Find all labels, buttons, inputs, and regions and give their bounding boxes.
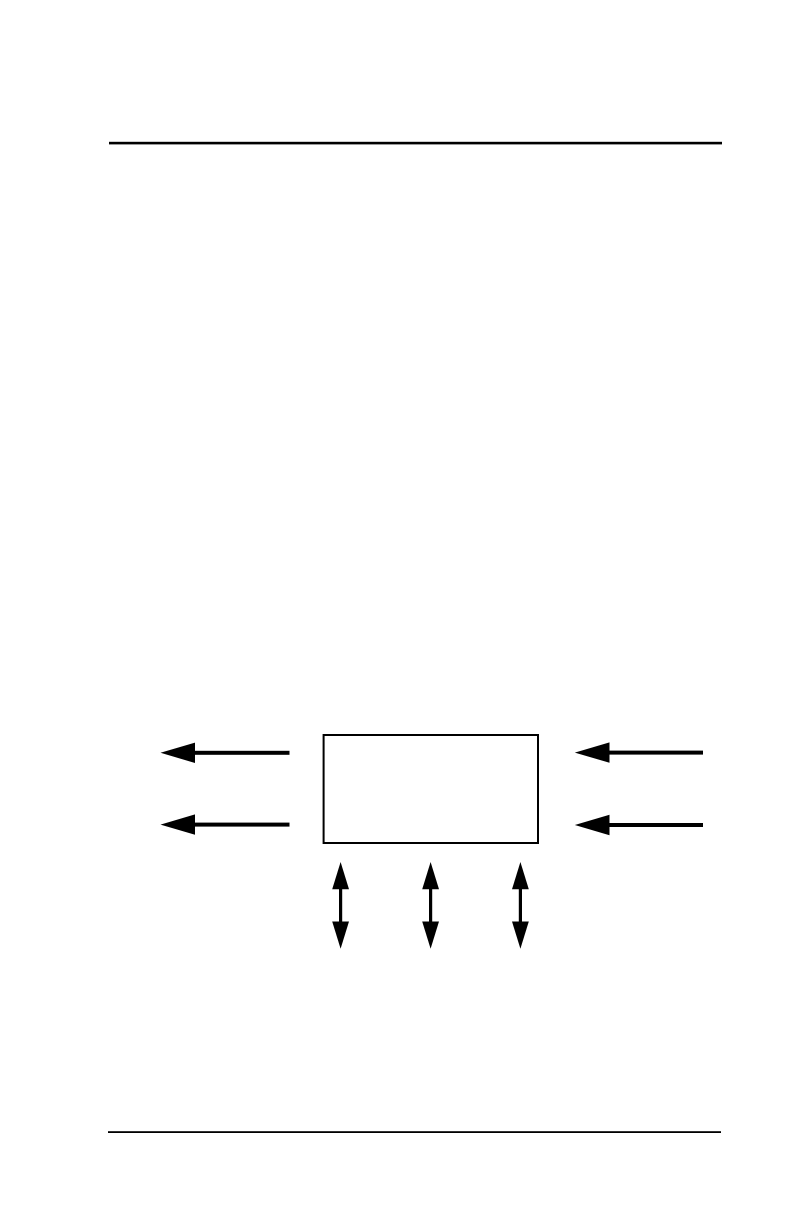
vertical double arrow middle <box>422 862 439 949</box>
left output arrow bottom <box>161 814 290 834</box>
right input arrow bottom <box>575 815 703 835</box>
vertical double arrow right <box>512 862 529 949</box>
vertical double arrow left <box>332 862 349 949</box>
box (paper path unit) <box>324 735 538 843</box>
left output arrow top <box>161 743 290 763</box>
footer rule <box>108 1131 721 1133</box>
right input arrow top <box>575 742 703 762</box>
header rule <box>109 142 722 145</box>
